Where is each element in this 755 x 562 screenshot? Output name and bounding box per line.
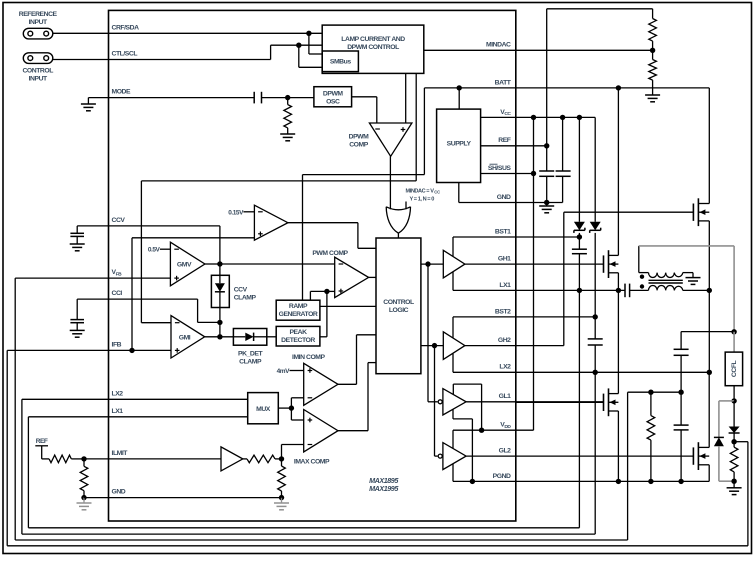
svg-text:GMV: GMV xyxy=(177,261,192,268)
svg-text:COMP: COMP xyxy=(349,142,369,149)
svg-text:PEAK: PEAK xyxy=(289,329,307,336)
svg-text:LX1: LX1 xyxy=(499,282,511,289)
svg-text:SH/SUS: SH/SUS xyxy=(488,165,512,172)
svg-text:CTL/SCL: CTL/SCL xyxy=(112,51,138,58)
svg-text:CCV: CCV xyxy=(112,217,126,224)
svg-text:PWM COMP: PWM COMP xyxy=(312,250,348,257)
svg-text:ILMIT: ILMIT xyxy=(112,450,129,457)
svg-text:LX2: LX2 xyxy=(499,364,511,371)
svg-text:LAMP CURRENT AND: LAMP CURRENT AND xyxy=(341,36,405,43)
svg-text:BATT: BATT xyxy=(495,79,512,86)
svg-text:INPUT: INPUT xyxy=(29,19,48,26)
svg-text:CCFL: CCFL xyxy=(731,360,738,377)
svg-text:GH2: GH2 xyxy=(498,337,511,344)
svg-text:CLAMP: CLAMP xyxy=(239,358,262,365)
svg-text:GL2: GL2 xyxy=(499,448,512,455)
svg-text:DPWM: DPWM xyxy=(323,90,344,97)
svg-text:MINDAC = V: MINDAC = V xyxy=(406,189,435,195)
svg-text:CONTROL: CONTROL xyxy=(22,68,53,75)
svg-text:INPUT: INPUT xyxy=(29,76,48,83)
svg-text:Y = 1, N = 0: Y = 1, N = 0 xyxy=(410,197,435,203)
svg-text:CCV: CCV xyxy=(234,287,248,294)
svg-text:IMIN COMP: IMIN COMP xyxy=(292,354,325,361)
svg-text:BST1: BST1 xyxy=(495,228,511,235)
svg-text:CRF/SDA: CRF/SDA xyxy=(112,24,140,31)
svg-text:BST2: BST2 xyxy=(495,308,511,315)
svg-text:IMAX COMP: IMAX COMP xyxy=(294,458,330,465)
svg-text:REFERENCE: REFERENCE xyxy=(19,11,58,18)
svg-text:CCI: CCI xyxy=(112,290,123,297)
svg-text:MUX: MUX xyxy=(256,406,271,413)
svg-text:GH1: GH1 xyxy=(498,256,511,263)
svg-text:DPWM CONTROL: DPWM CONTROL xyxy=(347,44,399,51)
svg-text:PGND: PGND xyxy=(493,473,511,480)
svg-text:MODE: MODE xyxy=(112,89,132,96)
svg-text:GND: GND xyxy=(497,194,511,201)
svg-text:DETECTOR: DETECTOR xyxy=(281,337,315,344)
svg-text:RAMP: RAMP xyxy=(289,303,308,310)
svg-text:LX2: LX2 xyxy=(112,390,124,397)
svg-text:GND: GND xyxy=(112,489,126,496)
svg-text:LX1: LX1 xyxy=(112,408,124,415)
svg-text:4mV: 4mV xyxy=(277,368,290,375)
svg-text:MAX1995: MAX1995 xyxy=(369,484,399,493)
svg-text:REF: REF xyxy=(36,438,48,445)
svg-text:GL1: GL1 xyxy=(499,393,512,400)
svg-text:CC: CC xyxy=(434,190,440,195)
svg-text:SMBus: SMBus xyxy=(330,59,351,66)
svg-text:MINDAC: MINDAC xyxy=(486,42,511,49)
svg-text:0.15V: 0.15V xyxy=(228,209,244,216)
svg-text:GMI: GMI xyxy=(179,335,191,342)
svg-text:PK_DET: PK_DET xyxy=(238,350,263,357)
svg-text:CONTROL: CONTROL xyxy=(383,299,414,306)
svg-text:GENERATOR: GENERATOR xyxy=(279,311,318,318)
svg-text:SUPPLY: SUPPLY xyxy=(447,140,472,147)
svg-text:0.5V: 0.5V xyxy=(148,247,161,254)
svg-text:OSC: OSC xyxy=(326,98,340,105)
svg-text:CLAMP: CLAMP xyxy=(234,295,257,302)
svg-text:DPWM: DPWM xyxy=(349,134,370,141)
svg-text:IFB: IFB xyxy=(112,341,122,348)
svg-text:REF: REF xyxy=(498,137,511,144)
svg-text:LOGIC: LOGIC xyxy=(389,307,409,314)
